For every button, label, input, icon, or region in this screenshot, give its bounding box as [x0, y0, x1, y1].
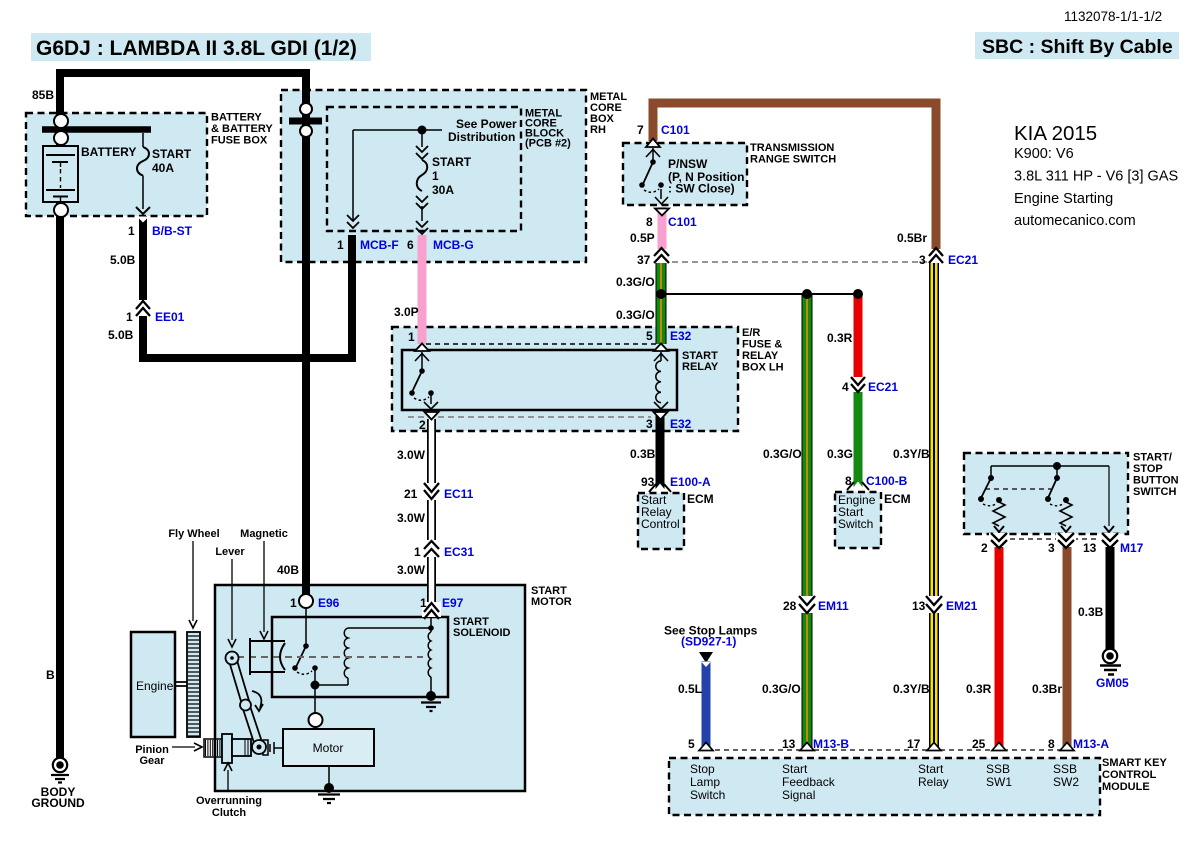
- svg-text:C100-B: C100-B: [866, 474, 908, 488]
- svg-text:EC21: EC21: [948, 253, 978, 267]
- svg-text:MODULE: MODULE: [1102, 781, 1150, 793]
- svg-text:See Power: See Power: [456, 117, 517, 131]
- svg-text:Magnetic: Magnetic: [240, 528, 288, 540]
- svg-text:Start: Start: [782, 762, 808, 776]
- svg-text:3.0P: 3.0P: [394, 305, 419, 319]
- svg-text:Lamp: Lamp: [690, 775, 720, 789]
- svg-text:3: 3: [646, 417, 653, 431]
- svg-text:5.0B: 5.0B: [108, 328, 134, 342]
- svg-text:SOLENOID: SOLENOID: [453, 627, 511, 639]
- svg-text:3.8L 311 HP - V6 [3] GAS: 3.8L 311 HP - V6 [3] GAS: [1014, 169, 1178, 185]
- svg-text:STOP: STOP: [1133, 463, 1163, 475]
- svg-text:Control: Control: [641, 517, 680, 531]
- svg-text:4: 4: [842, 380, 849, 394]
- svg-text:(PCB #2): (PCB #2): [525, 138, 571, 150]
- svg-text:FUSE BOX: FUSE BOX: [211, 135, 268, 147]
- svg-text:30A: 30A: [432, 183, 454, 197]
- svg-text:SWITCH: SWITCH: [1133, 486, 1176, 498]
- svg-text:40A: 40A: [152, 161, 174, 175]
- svg-text:0.5L: 0.5L: [678, 682, 702, 696]
- svg-text:Lever: Lever: [215, 546, 245, 558]
- svg-text:SMART KEY: SMART KEY: [1102, 757, 1167, 769]
- svg-text:0.3Y/B: 0.3Y/B: [893, 447, 930, 461]
- svg-text:17: 17: [907, 737, 921, 751]
- svg-text:13: 13: [782, 737, 796, 751]
- svg-text:BUTTON: BUTTON: [1133, 475, 1179, 487]
- svg-text:1: 1: [432, 169, 439, 183]
- svg-text:EC31: EC31: [444, 545, 474, 559]
- svg-text:Switch: Switch: [690, 788, 725, 802]
- svg-text:M13-B: M13-B: [813, 737, 849, 751]
- svg-text:Switch: Switch: [838, 517, 873, 531]
- svg-text:7: 7: [637, 123, 644, 137]
- svg-text:2: 2: [419, 418, 426, 432]
- svg-text:0.3G/O: 0.3G/O: [616, 275, 655, 289]
- svg-text:93: 93: [641, 475, 655, 489]
- svg-text:8: 8: [845, 474, 852, 488]
- svg-text:Motor: Motor: [313, 741, 344, 755]
- svg-text:EE01: EE01: [155, 310, 185, 324]
- svg-text:0.3B: 0.3B: [630, 447, 656, 461]
- svg-text:E96: E96: [318, 596, 340, 610]
- svg-text:SW1: SW1: [986, 775, 1012, 789]
- svg-text:SBC : Shift By Cable: SBC : Shift By Cable: [982, 36, 1173, 58]
- svg-text:0.3Br: 0.3Br: [1032, 682, 1062, 696]
- svg-text:START/: START/: [1133, 452, 1172, 464]
- svg-text:1: 1: [414, 545, 421, 559]
- svg-text:RELAY: RELAY: [682, 361, 719, 373]
- svg-text:SSB: SSB: [1053, 762, 1077, 776]
- svg-text:0.3R: 0.3R: [827, 331, 853, 345]
- svg-text:TRANSMISSION: TRANSMISSION: [750, 142, 834, 154]
- svg-text:MCB-F: MCB-F: [360, 238, 399, 252]
- svg-text:Engine Starting: Engine Starting: [1014, 191, 1113, 207]
- svg-text:Fly Wheel: Fly Wheel: [168, 528, 219, 540]
- svg-text:KIA 2015: KIA 2015: [1014, 122, 1097, 145]
- svg-text:40B: 40B: [277, 563, 299, 577]
- svg-text:M17: M17: [1120, 541, 1144, 555]
- svg-text:& BATTERY: & BATTERY: [211, 123, 273, 135]
- svg-text:0.3Y/B: 0.3Y/B: [893, 682, 930, 696]
- svg-text:EC21: EC21: [868, 380, 898, 394]
- svg-text:13: 13: [1083, 541, 1097, 555]
- svg-text:M13-A: M13-A: [1073, 737, 1109, 751]
- svg-text:28: 28: [783, 599, 797, 613]
- svg-text:2: 2: [981, 541, 988, 555]
- svg-text:5.0B: 5.0B: [110, 253, 136, 267]
- svg-text:Feedback: Feedback: [782, 775, 836, 789]
- svg-text:E32: E32: [670, 417, 692, 431]
- svg-text:1: 1: [290, 596, 297, 610]
- svg-text:Stop: Stop: [690, 762, 715, 776]
- svg-text:Engine: Engine: [136, 679, 174, 693]
- svg-text:13: 13: [912, 599, 926, 613]
- svg-text:START: START: [432, 155, 472, 169]
- svg-text:Gear: Gear: [139, 755, 165, 767]
- svg-text:0.3G/O: 0.3G/O: [763, 447, 802, 461]
- svg-text:1: 1: [420, 596, 427, 610]
- svg-text:5: 5: [688, 737, 695, 751]
- svg-text:6: 6: [407, 238, 414, 252]
- svg-text:3: 3: [919, 253, 926, 267]
- svg-text:B/B-ST: B/B-ST: [152, 224, 193, 238]
- svg-text:1132078-1/1-1/2: 1132078-1/1-1/2: [1064, 9, 1162, 24]
- svg-text:FUSE &: FUSE &: [742, 339, 782, 351]
- svg-text:C101: C101: [661, 123, 690, 137]
- svg-text:: SW Close): : SW Close): [668, 182, 735, 196]
- svg-text:E/R: E/R: [742, 327, 760, 339]
- svg-text:E97: E97: [442, 596, 464, 610]
- svg-text:Signal: Signal: [782, 788, 815, 802]
- svg-text:3: 3: [1048, 541, 1055, 555]
- svg-text:0.3G/O: 0.3G/O: [616, 308, 655, 322]
- svg-text:K900: V6: K900: V6: [1014, 146, 1074, 162]
- svg-text:START: START: [152, 147, 192, 161]
- svg-text:ECM: ECM: [884, 492, 911, 506]
- svg-text:1: 1: [126, 310, 133, 324]
- svg-text:B: B: [46, 668, 55, 682]
- svg-text:3.0W: 3.0W: [397, 511, 426, 525]
- svg-text:RANGE SWITCH: RANGE SWITCH: [750, 153, 836, 165]
- svg-text:EC11: EC11: [444, 487, 474, 501]
- svg-text:0.3G: 0.3G: [827, 447, 853, 461]
- svg-text:SW2: SW2: [1053, 775, 1079, 789]
- svg-text:1: 1: [408, 330, 415, 344]
- svg-text:8: 8: [646, 215, 653, 229]
- svg-text:Start: Start: [918, 762, 944, 776]
- svg-text:CONTROL: CONTROL: [1102, 769, 1157, 781]
- svg-text:EM21: EM21: [946, 599, 978, 613]
- svg-text:BATTERY: BATTERY: [81, 145, 136, 159]
- svg-text:EM11: EM11: [818, 599, 849, 613]
- svg-text:25: 25: [972, 737, 986, 751]
- svg-text:37: 37: [637, 253, 651, 267]
- svg-text:Overrunning: Overrunning: [196, 795, 262, 807]
- svg-text:C101: C101: [668, 215, 697, 229]
- svg-text:Distribution: Distribution: [448, 130, 515, 144]
- svg-text:ECM: ECM: [687, 492, 714, 506]
- svg-text:Relay: Relay: [918, 775, 949, 789]
- svg-text:E32: E32: [670, 329, 692, 343]
- svg-text:0.3G/O: 0.3G/O: [762, 682, 801, 696]
- svg-text:85B: 85B: [32, 88, 54, 102]
- svg-text:0.3B: 0.3B: [1078, 605, 1104, 619]
- svg-text:0.5Br: 0.5Br: [897, 231, 927, 245]
- svg-text:G6DJ : LAMBDA II 3.8L GDI (1/2: G6DJ : LAMBDA II 3.8L GDI (1/2): [36, 37, 357, 60]
- svg-text:SSB: SSB: [986, 762, 1010, 776]
- svg-text:automecanico.com: automecanico.com: [1014, 213, 1136, 229]
- svg-text:(SD927-1): (SD927-1): [681, 635, 736, 649]
- svg-text:MOTOR: MOTOR: [531, 596, 572, 608]
- svg-text:3.0W: 3.0W: [397, 448, 426, 462]
- svg-text:RH: RH: [590, 124, 606, 136]
- svg-text:MCB-G: MCB-G: [433, 238, 474, 252]
- svg-text:GROUND: GROUND: [31, 796, 85, 810]
- svg-text:5: 5: [646, 329, 653, 343]
- svg-text:0.5P: 0.5P: [630, 231, 655, 245]
- svg-text:RELAY: RELAY: [742, 350, 779, 362]
- svg-text:1: 1: [128, 224, 135, 238]
- svg-text:8: 8: [1048, 737, 1055, 751]
- svg-text:3.0W: 3.0W: [397, 563, 426, 577]
- svg-text:BATTERY: BATTERY: [211, 112, 262, 124]
- svg-text:21: 21: [404, 487, 418, 501]
- svg-text:GM05: GM05: [1096, 676, 1129, 690]
- svg-text:1: 1: [337, 238, 344, 252]
- svg-text:P/NSW: P/NSW: [668, 157, 708, 171]
- svg-text:Clutch: Clutch: [212, 807, 247, 819]
- svg-text:BOX LH: BOX LH: [742, 362, 784, 374]
- svg-text:E100-A: E100-A: [670, 475, 711, 489]
- svg-text:0.3R: 0.3R: [966, 682, 992, 696]
